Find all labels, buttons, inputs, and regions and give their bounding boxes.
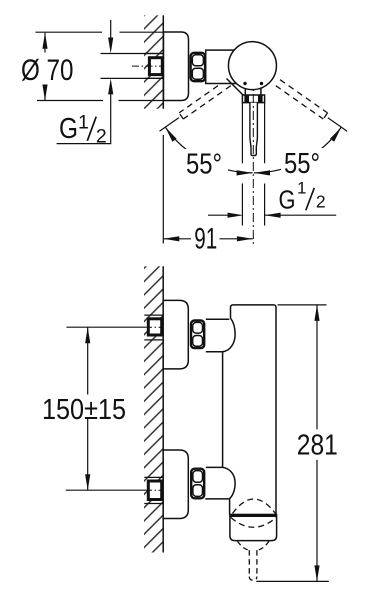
- centerline of handle: [252, 88, 254, 245]
- lower hex nut (bottom view): [191, 469, 204, 499]
- G1/2 dim leader (bottom): [208, 214, 336, 216]
- svg-text:1: 1: [297, 178, 306, 197]
- lower wall stub (bottom view): [144, 477, 163, 503]
- body left edge (mid): [222, 352, 224, 468]
- escutcheon (top view): [164, 32, 189, 101]
- 281 ext line top: [278, 304, 327, 306]
- extension line escutcheon bottom (Ø70): [37, 100, 164, 102]
- 55° extension line right: [328, 118, 347, 132]
- upper escutcheon (bottom view): [163, 300, 188, 369]
- 55° extension line left: [160, 118, 179, 132]
- lower escutcheon (bottom view): [163, 450, 188, 519]
- body cylinder (top view): [206, 50, 236, 83]
- wall edge line (bottom view): [162, 266, 164, 552]
- dashed funnel to outlet nipple: [238, 541, 270, 550]
- arc arrows: [165, 127, 176, 142]
- wall hatch (top view): [144, 15, 163, 109]
- svg-text:2: 2: [96, 125, 107, 147]
- dashed dome arc above cap: [233, 499, 276, 514]
- body (bottom view) top section: [231, 305, 277, 515]
- svg-text:2: 2: [316, 191, 326, 211]
- upper hex nut (bottom view): [191, 321, 204, 349]
- dashed outlet nipple: [249, 550, 257, 580]
- G1/2 extension line (pipe top): [101, 53, 164, 55]
- svg-text:91: 91: [194, 223, 217, 256]
- svg-text:Ø 70: Ø 70: [21, 54, 74, 87]
- dimension arc left 55°: [165, 127, 252, 173]
- extension line escutcheon top (Ø70): [35, 31, 163, 33]
- upper connection boss: [206, 318, 235, 352]
- G1/2 extension line (pipe bottom): [101, 77, 164, 79]
- 281 ext line bottom: [256, 580, 329, 582]
- dim line 91: [163, 238, 253, 240]
- dashed lever position left 55°: [179, 80, 231, 119]
- transition diagonal to handle collar: [227, 79, 244, 96]
- stub centerline: [132, 65, 164, 67]
- extension lines for G1/2 outlet (collar edges): [242, 103, 264, 226]
- dimension line Ø70: [44, 33, 46, 100]
- wall pipe stub (top view, behind wall): [145, 54, 164, 79]
- ext line left (wall): [162, 135, 164, 244]
- lever collar (below circle): [245, 86, 261, 96]
- dashed arc inside cap: [231, 518, 276, 528]
- dashed lever position right 55°: [276, 80, 328, 119]
- svg-text:281: 281: [297, 429, 338, 461]
- svg-text:55°: 55°: [186, 149, 222, 181]
- svg-text:G: G: [279, 187, 296, 215]
- wall hatch (bottom view): [144, 266, 163, 552]
- lower connection boss: [206, 467, 235, 514]
- svg-text:G: G: [59, 113, 78, 145]
- G1/2 dim arrows (left label leader): [110, 20, 112, 38]
- 150 dim line: [87, 327, 89, 490]
- screw dots: [243, 82, 246, 85]
- upper wall stub (bottom view): [144, 315, 163, 340]
- svg-text:1: 1: [78, 111, 89, 133]
- wall edge line (top view): [162, 15, 164, 109]
- lever rod (top view): [250, 103, 258, 156]
- svg-text:55°: 55°: [284, 148, 320, 180]
- body circle (top view): [228, 42, 276, 90]
- 281 dim line: [316, 305, 318, 582]
- dimension arc right 55°: [254, 127, 341, 173]
- hex nut (top view): [191, 53, 206, 81]
- 150±15 ext line bottom: [66, 489, 146, 491]
- svg-text:150±15: 150±15: [42, 394, 126, 426]
- 150±15 ext line top: [66, 326, 146, 328]
- check valve cap: [230, 515, 277, 541]
